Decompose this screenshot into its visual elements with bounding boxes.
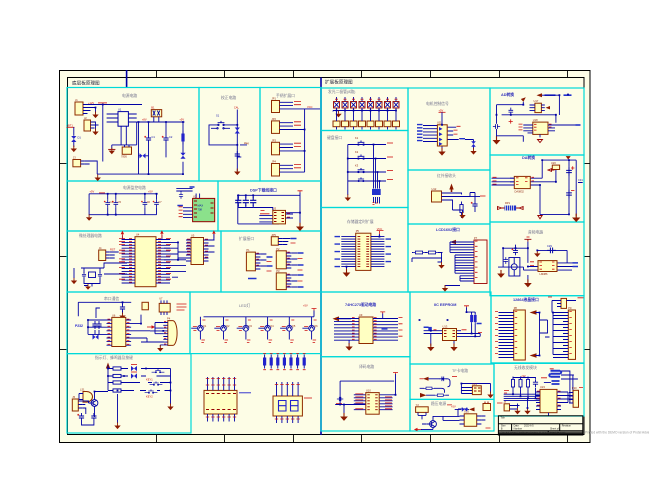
wire	[291, 253, 297, 265]
connector J4	[99, 250, 106, 261]
svg-text:U4: U4	[136, 233, 140, 237]
LED DL8	[393, 102, 399, 109]
IC 74HC273 U9	[359, 317, 373, 344]
capacitor C12	[250, 197, 256, 207]
svg-text:Sheet of: Sheet of	[550, 428, 559, 431]
pin numbers	[352, 318, 377, 340]
LED DL3	[351, 102, 357, 109]
wire	[523, 125, 575, 137]
svg-text:U2: U2	[193, 194, 197, 198]
pin numbers	[287, 252, 290, 264]
capacitor C11	[243, 197, 249, 207]
ground	[114, 423, 120, 430]
power bar	[393, 373, 398, 375]
resistor RN8	[393, 121, 400, 127]
capacitor C18	[77, 413, 84, 421]
wire bus	[204, 311, 315, 317]
capacitor C26	[566, 190, 572, 199]
svg-text:Q1: Q1	[203, 324, 207, 328]
resistor R16	[526, 377, 529, 390]
wire	[112, 122, 137, 149]
power arrow	[147, 325, 155, 328]
outer frame	[60, 71, 591, 443]
pins top	[277, 382, 299, 396]
pins	[536, 392, 561, 410]
audio IC U21	[538, 261, 557, 272]
pin numbers	[569, 312, 572, 354]
transistor Q7	[142, 302, 148, 310]
wire	[504, 371, 578, 403]
wire	[348, 145, 386, 204]
ground	[71, 278, 77, 285]
net labels left	[119, 239, 125, 280]
crystal Y1	[81, 268, 104, 287]
svg-text:RST: RST	[110, 248, 116, 252]
capacitor C29	[547, 248, 556, 254]
resistor RP4	[283, 355, 286, 369]
wire	[443, 409, 485, 420]
pushbutton S1	[213, 121, 229, 126]
IR receiver U12	[432, 191, 442, 202]
pin marks inside	[444, 331, 455, 337]
wire	[97, 105, 184, 175]
ground	[157, 345, 163, 352]
junction	[428, 327, 432, 331]
resistor R6	[460, 202, 463, 216]
ground	[438, 262, 444, 269]
net labels bold right	[386, 239, 392, 262]
crystal Y2	[416, 407, 429, 413]
svg-text:708: 708	[198, 208, 203, 212]
title block table	[498, 416, 582, 435]
ADC U18	[533, 122, 548, 134]
ground	[493, 136, 501, 144]
IC MAX232 U6	[112, 317, 126, 346]
svg-text:扩展板原理图: 扩展板原理图	[325, 79, 353, 86]
svg-text:U17: U17	[534, 99, 539, 103]
LED DL4	[359, 102, 365, 109]
transistor Q8	[89, 400, 98, 407]
LED D4	[235, 128, 240, 134]
wire right bundle	[371, 237, 385, 267]
block 74HC273驱动电路	[321, 292, 410, 357]
resistor RN1	[333, 121, 340, 127]
capacitor C34	[552, 381, 560, 384]
block 发光二极管8路	[321, 88, 408, 131]
pin marks inside	[358, 237, 370, 267]
svg-text:S1: S1	[216, 114, 220, 118]
connector JP4	[272, 164, 280, 177]
ground	[92, 112, 98, 119]
wire loop	[335, 374, 395, 415]
capacitor C15	[120, 304, 125, 312]
svg-text:JP3: JP3	[272, 139, 277, 143]
DIP socket U8	[204, 390, 237, 414]
ground	[524, 408, 530, 415]
power arrow	[537, 93, 543, 97]
power bar	[312, 309, 317, 311]
capacitor C28	[504, 257, 508, 264]
supervisor U2	[193, 198, 215, 221]
connector P1	[246, 252, 255, 271]
resistor R4	[110, 381, 124, 384]
ground	[450, 344, 457, 352]
block 电机控制信号	[408, 88, 490, 170]
svg-text:LED灯: LED灯	[239, 303, 250, 308]
svg-text:Number: Number	[514, 428, 523, 431]
pin dots	[206, 379, 236, 418]
net stub	[497, 388, 583, 404]
capacitor C19	[91, 413, 96, 421]
ground	[572, 214, 580, 223]
jack J8	[509, 258, 520, 277]
net stub	[452, 376, 457, 378]
wire	[536, 313, 550, 356]
svg-text:+5V: +5V	[303, 304, 308, 308]
EEPROM U13	[443, 329, 457, 341]
svg-text:+5V: +5V	[90, 190, 95, 194]
capacitor C4	[104, 200, 110, 207]
svg-text:Title: Title	[500, 417, 505, 420]
transistor Q4	[258, 317, 267, 340]
ground	[119, 313, 125, 320]
svg-text:微处理器电路: 微处理器电路	[79, 233, 102, 238]
svg-text:C2: C2	[169, 135, 173, 139]
wire	[513, 406, 520, 410]
resistor R9	[470, 312, 473, 325]
svg-text:C29: C29	[547, 244, 552, 248]
wire	[108, 366, 171, 405]
transistor Q10	[427, 421, 436, 428]
svg-text:Printed with the DEMO version: Printed with the DEMO version of Protel …	[585, 431, 649, 435]
capacitor C7	[153, 200, 159, 207]
DAC U19	[514, 176, 530, 188]
wire	[85, 161, 98, 174]
LED D6	[131, 366, 137, 371]
svg-text:存储器定时扩展: 存储器定时扩展	[347, 219, 374, 224]
wire	[237, 192, 300, 225]
power arrow	[449, 184, 453, 193]
pin numbers	[287, 274, 290, 286]
pushbutton K1	[353, 141, 369, 146]
net stubs	[399, 318, 403, 337]
resistor RN5	[367, 121, 374, 127]
connector J5	[72, 399, 78, 411]
svg-text:发光二极管(8路): 发光二极管(8路)	[328, 89, 356, 94]
svg-text:稳压电源: 稳压电源	[431, 401, 446, 406]
pin dots	[275, 385, 300, 420]
MCU U4	[135, 237, 156, 287]
resistor R18	[435, 394, 446, 396]
net labels right	[166, 239, 171, 280]
svg-text:diag: diag	[244, 141, 249, 145]
power arrow	[414, 428, 422, 431]
wire	[104, 263, 127, 274]
net labels bold left	[335, 237, 341, 267]
svg-text:K2: K2	[355, 150, 359, 154]
pin numbers	[530, 262, 555, 269]
wire	[424, 307, 481, 345]
svg-text:DSP下载线接口: DSP下载线接口	[250, 188, 277, 193]
pin numbers	[537, 391, 561, 405]
pins	[351, 319, 381, 341]
svg-text:P9: P9	[568, 306, 572, 310]
pin numbers	[187, 239, 208, 257]
resistor R8	[426, 251, 439, 254]
svg-text:2023-6-5: 2023-6-5	[524, 425, 534, 428]
block AD转换	[490, 88, 584, 155]
svg-text:RP1: RP1	[505, 201, 511, 205]
svg-text:JP2: JP2	[272, 117, 277, 121]
resistor R17	[424, 387, 435, 389]
wire	[89, 194, 158, 215]
net label socket	[239, 392, 251, 394]
wire	[497, 95, 560, 142]
pushbutton S4	[152, 369, 165, 373]
ground	[442, 285, 448, 292]
net stubs	[454, 126, 465, 138]
DB9 connector P4	[168, 321, 177, 346]
resistor R10	[474, 312, 477, 325]
block LCD1602接口	[408, 224, 490, 292]
svg-text:12864液晶接口: 12864液晶接口	[513, 297, 539, 302]
net stubs	[177, 304, 187, 310]
svg-text:红外接收头: 红外接收头	[437, 173, 456, 178]
connector P5	[356, 233, 371, 270]
wire bundle	[553, 313, 563, 358]
pins bottom	[277, 416, 299, 423]
block 校正电路	[199, 88, 260, 182]
resistor RP6	[296, 355, 299, 369]
svg-text:Q4: Q4	[270, 324, 274, 328]
resistor RN6	[376, 121, 383, 127]
transistor Q6	[302, 317, 311, 340]
transistor Q5	[280, 317, 289, 340]
pin numbers	[108, 319, 130, 344]
power arrow	[450, 240, 456, 244]
regulator U1	[118, 112, 128, 127]
capacitor C10	[235, 197, 241, 207]
buzzer LS1	[83, 392, 93, 403]
wire bundle	[445, 242, 469, 287]
small box U22	[561, 298, 567, 308]
resistor R15	[519, 377, 522, 390]
svg-text:扩展接口: 扩展接口	[239, 236, 254, 241]
title block text	[500, 417, 571, 435]
svg-text:P10: P10	[572, 386, 577, 390]
digit 2	[291, 401, 299, 412]
pin marks inside	[367, 395, 377, 410]
capacitor C30	[533, 379, 538, 387]
LED D7	[131, 373, 137, 378]
transistor Q3	[237, 317, 246, 340]
block 手柄扩展口	[260, 88, 321, 182]
wire	[110, 252, 119, 258]
svg-text:校正电路: 校正电路	[221, 95, 236, 100]
wire main divider	[320, 78, 322, 436]
svg-text:IIC EEPROM: IIC EEPROM	[434, 303, 456, 307]
wire	[95, 122, 99, 131]
block TF卡电路	[410, 364, 494, 399]
ground	[524, 279, 532, 287]
wire	[447, 193, 471, 219]
LED DL2	[342, 102, 348, 109]
pushbutton K4	[354, 177, 368, 181]
diode D8	[471, 141, 476, 146]
resistor RP5	[289, 355, 292, 369]
resistor pack RP1	[263, 355, 266, 369]
block DSP下载线接口	[218, 181, 321, 231]
power arrow	[530, 310, 537, 314]
resistor R5	[110, 389, 124, 392]
power arrow open	[538, 216, 542, 219]
capacitor C25	[566, 167, 572, 176]
svg-text:+5V: +5V	[521, 374, 526, 378]
connector J2	[84, 120, 91, 131]
block 译码电路	[321, 357, 410, 431]
wire title divider	[126, 70, 128, 88]
svg-text:K3: K3	[355, 164, 359, 168]
pin marks inside	[274, 213, 284, 222]
block 微处理器	[67, 231, 221, 292]
svg-text:74HC273驱动电路: 74HC273驱动电路	[345, 302, 376, 307]
svg-text:Date:: Date:	[514, 425, 520, 428]
block 存储器定时扩展	[321, 208, 408, 293]
diode D5	[93, 334, 99, 339]
pins bottom	[208, 414, 235, 422]
LED D1	[73, 127, 75, 147]
svg-text:Revision: Revision	[562, 425, 572, 428]
svg-text:C6: C6	[147, 200, 151, 204]
capacitor C5	[112, 200, 118, 207]
power arrow	[469, 407, 475, 411]
pins	[528, 125, 553, 133]
net labels bold	[248, 239, 304, 288]
svg-text:+8V: +8V	[142, 118, 147, 122]
connector P2	[276, 251, 286, 269]
connector J3	[73, 160, 81, 167]
svg-text:DA0832: DA0832	[515, 189, 525, 193]
resistor RN4	[359, 121, 366, 127]
ground	[345, 343, 352, 351]
LED DL6	[376, 102, 382, 109]
svg-text:K1: K1	[355, 136, 359, 140]
wire	[150, 323, 163, 347]
diode D2	[140, 153, 146, 158]
power arrow	[546, 106, 551, 109]
capacitor C8	[179, 192, 183, 198]
wire	[209, 110, 247, 172]
net labels red	[336, 394, 392, 409]
transistor Q2	[214, 317, 223, 340]
wire right bundle	[349, 314, 398, 345]
svg-text:Drawn By:: Drawn By:	[550, 431, 560, 434]
ground	[92, 129, 98, 136]
wire	[260, 254, 266, 266]
capacitor C3	[235, 151, 240, 159]
pin numbers	[493, 177, 535, 184]
resistor R7	[413, 251, 426, 254]
pins right	[126, 320, 131, 345]
svg-text:Q2: Q2	[226, 324, 230, 328]
connector P3	[276, 273, 286, 290]
pushbutton S3	[145, 390, 158, 394]
ground	[86, 214, 92, 221]
pushbutton S2	[150, 382, 163, 386]
net label bold	[573, 263, 579, 267]
block IIC EEPROM	[410, 292, 491, 364]
svg-text:U14: U14	[472, 382, 477, 386]
power arrow	[566, 156, 571, 159]
svg-text:Y2: Y2	[416, 403, 420, 407]
svg-text:VCC: VCC	[307, 105, 313, 109]
connector P9	[568, 310, 575, 359]
resistor RN7	[384, 121, 391, 127]
IC U17	[535, 103, 542, 112]
connector P10	[573, 390, 578, 407]
digit 1	[279, 401, 287, 412]
power arrow	[212, 230, 215, 238]
block 键盘接口	[321, 131, 408, 208]
pin numbers	[164, 322, 166, 344]
pin numbers	[519, 124, 552, 130]
net label bold	[545, 94, 572, 96]
svg-text:U23: U23	[540, 385, 545, 389]
net label bold	[177, 187, 194, 206]
svg-text:Q3: Q3	[248, 324, 252, 328]
power arrow open	[548, 169, 555, 172]
sheet background	[59, 70, 591, 443]
LED DL5	[368, 102, 374, 109]
resistor RN2	[342, 121, 349, 127]
IC U14	[472, 386, 481, 395]
svg-text:JP5: JP5	[271, 233, 276, 237]
svg-text:U9: U9	[359, 313, 363, 317]
capacitor C14	[98, 272, 102, 278]
power arrow	[420, 393, 427, 398]
net label seg	[304, 397, 312, 399]
wire junction dots	[87, 94, 570, 409]
power arrow open	[516, 207, 523, 210]
LED DL7	[385, 102, 391, 109]
svg-text:+5V: +5V	[148, 190, 153, 194]
net labels red	[260, 211, 290, 218]
block DA转换	[490, 155, 584, 222]
net label blue	[372, 189, 381, 195]
net labels red	[504, 369, 554, 393]
svg-text:KEY1: KEY1	[146, 378, 153, 382]
svg-text:电机控制信号: 电机控制信号	[426, 101, 449, 106]
capacitor C17	[96, 321, 101, 329]
wire	[284, 144, 305, 151]
svg-text:电源监控电路: 电源监控电路	[123, 185, 146, 190]
ground	[71, 146, 77, 153]
power arrow	[333, 316, 340, 321]
diode D10	[462, 407, 467, 412]
wire	[122, 235, 186, 277]
power bar	[524, 239, 531, 241]
ground	[487, 392, 493, 399]
block 扩展接口	[221, 231, 321, 292]
driver U11	[437, 125, 447, 146]
pins	[510, 178, 514, 185]
small box U16	[483, 404, 491, 411]
svg-text:电源电路: 电源电路	[122, 93, 137, 98]
svg-text:7805: 7805	[121, 154, 127, 158]
net stub	[480, 195, 486, 197]
svg-text:AD转换: AD转换	[501, 92, 514, 97]
svg-text:B1: B1	[151, 106, 155, 110]
